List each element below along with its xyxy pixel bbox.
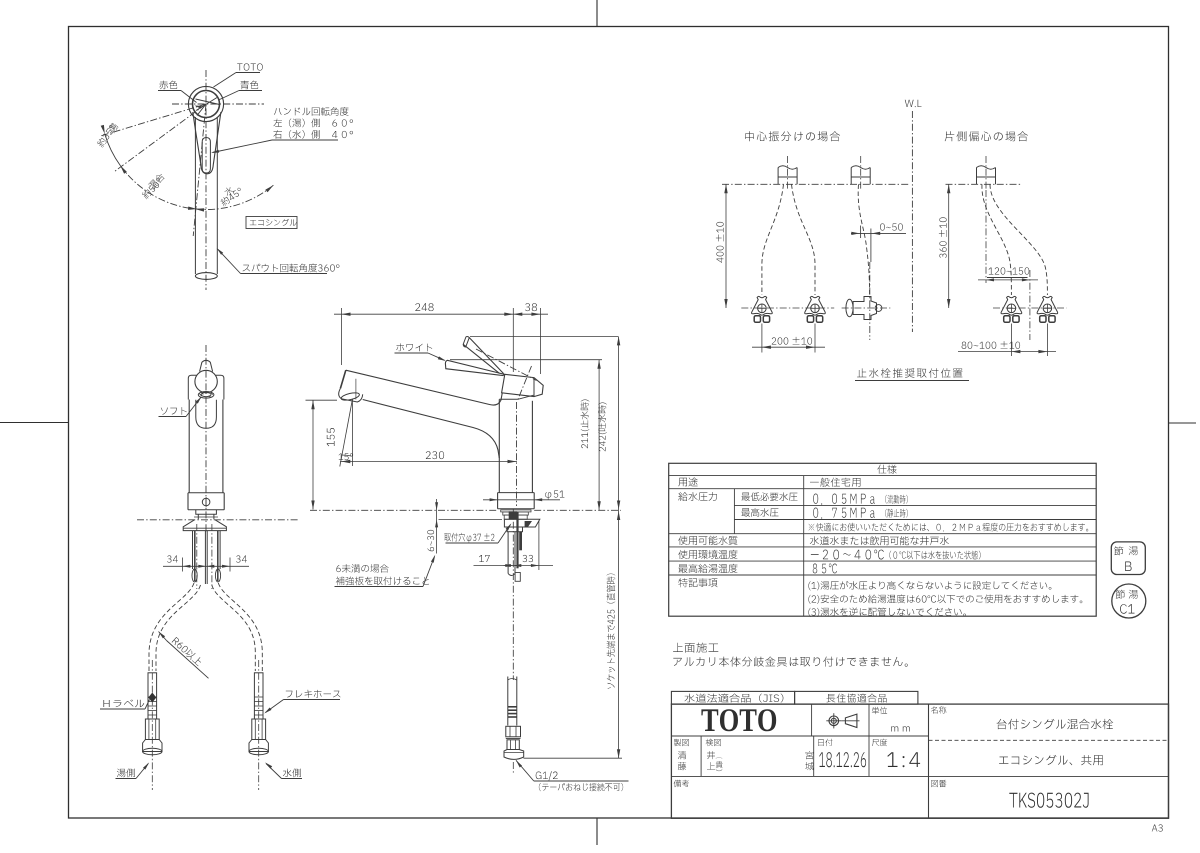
top view horizontal centerline — [172, 103, 264, 105]
counter line right diagram — [946, 183, 1023, 185]
base flange — [183, 520, 226, 531]
mounting upper — [503, 512, 529, 515]
note alkali branch fitting — [673, 657, 907, 667]
dim text 34 left — [167, 555, 178, 562]
body lower section — [188, 492, 224, 494]
label drawing number — [931, 780, 946, 787]
counter line left diagram — [722, 183, 909, 185]
frame tick top — [596, 0, 598, 27]
top view vertical centerline — [205, 70, 207, 290]
title center-split case — [745, 131, 840, 141]
label R60 min — [159, 632, 166, 639]
drawing number — [1009, 793, 1088, 808]
label red — [159, 81, 177, 90]
aerator — [339, 388, 363, 402]
hose curve eccentric left — [982, 184, 1011, 295]
arc arrowheads — [265, 185, 273, 192]
label TOTO — [237, 63, 263, 70]
extension line lever-up tip — [470, 335, 618, 337]
handle inner circle — [193, 91, 220, 118]
dim 38 extension right — [539, 308, 541, 374]
radial line hot limit — [101, 104, 207, 136]
label checker — [706, 739, 721, 746]
radial line hot end — [115, 104, 207, 172]
spec table column divider main — [803, 476, 805, 617]
caption recommended valve position — [857, 368, 962, 378]
dim text 38 — [525, 303, 537, 311]
dim 248 extension left — [341, 308, 343, 365]
certification box JIS — [671, 691, 794, 704]
socket centerline below — [512, 762, 514, 774]
soft ring ellipse — [198, 392, 214, 399]
projection symbol circle — [829, 716, 839, 726]
spout tube right edge — [216, 117, 218, 274]
stop valve symbol — [752, 296, 773, 315]
row special notes — [679, 578, 718, 587]
label W.L — [905, 100, 922, 107]
label cold side — [283, 769, 301, 778]
label mounting hole — [444, 533, 494, 543]
stop valve symbol — [805, 296, 826, 315]
dim 360+-10 — [948, 184, 950, 308]
counter line side view — [310, 509, 498, 511]
row pressure note — [809, 523, 1089, 532]
dim 34-34 extension lines — [181, 558, 183, 572]
dim 0-50 — [880, 223, 903, 230]
spec table column divider pressure — [733, 489, 735, 534]
hose connector centerline — [151, 660, 153, 790]
row max pressure — [741, 508, 778, 517]
row max hot water temperature — [678, 564, 737, 573]
eco mark B — [1111, 542, 1145, 575]
faucet stub above counter — [976, 168, 978, 185]
label flex hose — [286, 690, 341, 698]
spout top edge — [346, 370, 503, 405]
dim text 230 — [426, 451, 444, 459]
title block outer — [671, 704, 1168, 818]
dim line 248-38 — [334, 313, 548, 315]
dim text 248 — [415, 303, 433, 311]
label hot side — [117, 769, 135, 778]
spout end face — [340, 370, 345, 388]
hose dashed curve right inner — [212, 585, 256, 671]
label unit — [872, 707, 887, 714]
socket nut — [506, 726, 521, 737]
hose dashed curve left outer — [149, 583, 194, 671]
handle lower U outline — [196, 400, 217, 429]
shank tube centerlines — [196, 524, 198, 589]
handle cross marks — [196, 98, 220, 116]
note reinforcement plate — [336, 564, 388, 573]
clamp bolt — [516, 512, 518, 569]
dim text socket 425 — [607, 574, 616, 689]
body cylinder — [188, 400, 190, 493]
dim 200+-10 — [761, 324, 763, 353]
cartridge housing — [502, 374, 544, 396]
dim 120-150 — [989, 267, 1030, 274]
hose connector body — [254, 673, 263, 719]
handle body outline — [193, 112, 221, 174]
handle rotation arc (mix-water) — [120, 165, 273, 209]
handle rotation arc (hot) — [105, 134, 120, 165]
frame tick left — [0, 422, 69, 424]
15 degree vertex lines — [351, 400, 353, 467]
product name — [997, 719, 1113, 730]
hose connector nut — [145, 719, 159, 740]
body top edge — [499, 398, 518, 400]
shank tubes — [192, 531, 194, 569]
note top installation — [673, 643, 718, 653]
label drafter — [674, 739, 689, 746]
label H-label — [103, 700, 144, 708]
label hot angle — [108, 122, 119, 133]
spout tube left edge — [194, 117, 196, 274]
row water quality — [678, 536, 737, 545]
counter underside line — [439, 518, 503, 520]
mounting packing — [501, 510, 531, 512]
label date — [818, 739, 832, 746]
label white — [396, 343, 432, 351]
handle grip slot — [202, 138, 210, 174]
stop valve symbol — [1037, 296, 1058, 315]
label scale — [872, 739, 887, 746]
hose curve to left valve — [762, 184, 784, 295]
spec table outer border — [669, 463, 1096, 616]
socket tip extension — [524, 757, 623, 759]
valve centerline horizontal right diagram — [993, 307, 1067, 309]
cartridge axis dash-dot — [518, 366, 532, 401]
lever tip knob — [200, 360, 213, 371]
dim text 34 right — [236, 555, 247, 562]
water line W.L — [911, 111, 913, 332]
title block horizontals — [671, 735, 928, 737]
hose dashed curve right outer — [218, 583, 262, 671]
supply pipe stub — [507, 532, 509, 574]
socket lower nut — [507, 740, 519, 750]
dim 34-34 line — [163, 565, 249, 567]
lever axis dash-dot — [476, 349, 537, 381]
paper size A3 — [1152, 824, 1163, 831]
label soft — [161, 407, 187, 415]
label mix angle — [147, 172, 165, 190]
supply centerline — [512, 509, 514, 680]
hose curve side view — [858, 184, 869, 295]
hose connector flare — [249, 740, 268, 752]
pipe fitting small — [515, 573, 520, 582]
title one-side eccentric case — [945, 131, 1028, 141]
dim 155 line — [312, 400, 314, 509]
eco mark C1 — [1112, 584, 1146, 618]
projection symbol cone — [845, 714, 857, 727]
dim text 242 — [598, 403, 607, 452]
eco single box — [246, 217, 297, 229]
label G1/2 — [516, 760, 522, 767]
stop valve symbol — [1001, 296, 1022, 315]
product subname — [999, 755, 1103, 765]
label water angle — [223, 185, 234, 196]
dim text 15deg — [339, 453, 354, 460]
dim 6-30 — [436, 499, 438, 554]
label remarks — [674, 780, 689, 787]
lever ball — [195, 370, 217, 392]
spout bottom edge — [363, 400, 500, 459]
dim 230 line — [340, 461, 517, 463]
body centerline lower — [516, 402, 518, 506]
faucet stub above counter — [777, 168, 779, 185]
row ambient temperature — [678, 550, 737, 559]
hose connector flare — [143, 740, 162, 752]
radial line mix position — [193, 104, 206, 236]
mounting bracket plate — [504, 519, 539, 527]
aerator axis line — [355, 379, 357, 400]
base block — [498, 492, 535, 494]
hose connector body — [148, 673, 157, 719]
valve centerline horizontal left diagram — [741, 307, 834, 309]
certification box chouju — [795, 691, 918, 704]
dim 248-38 extension mid — [512, 308, 514, 372]
spec table row lines — [669, 475, 1096, 477]
name row dashed divider — [929, 739, 1169, 741]
stop valve side view symbol — [846, 299, 853, 316]
row supply pressure — [678, 492, 717, 501]
mounting lower nut — [507, 527, 522, 532]
body column — [498, 399, 500, 492]
hose curve to right valve — [792, 184, 816, 295]
dim 80-100+-10 — [1010, 324, 1012, 357]
hose connector nut — [252, 719, 266, 740]
lever up position bar — [463, 337, 469, 347]
frame tick right — [1169, 422, 1197, 424]
dim 400+-10 — [725, 184, 727, 308]
socket flare — [504, 750, 524, 760]
counter line front view — [137, 519, 298, 521]
handle outer circle — [188, 86, 223, 121]
body cap — [188, 375, 196, 399]
extension line lever-down tip — [450, 359, 602, 361]
hose dashed curve left inner — [156, 585, 201, 671]
hose end hooks — [192, 569, 197, 582]
label name — [931, 706, 946, 713]
dim 211 line — [598, 360, 600, 511]
label handle rotation angle — [274, 107, 349, 116]
dim phi51 — [483, 499, 560, 501]
dim text 211 — [581, 400, 590, 449]
hose connector centerline — [258, 660, 260, 790]
label blue — [241, 81, 259, 90]
mount nut upper — [196, 510, 217, 515]
label spout rotation angle — [243, 264, 340, 273]
lever down position bar — [445, 360, 504, 375]
dim text 155 — [327, 428, 335, 446]
TOTO logo — [701, 709, 776, 731]
title block verticals — [928, 704, 930, 818]
spout tube end ellipse — [195, 273, 217, 280]
supply hose lower — [507, 677, 509, 726]
hose curve eccentric right — [990, 184, 1047, 295]
dim 155 extension — [306, 399, 338, 401]
faucet stub above counter — [850, 168, 852, 185]
table header — [877, 465, 896, 474]
H label diamond — [148, 693, 156, 703]
frame tick bottom — [596, 818, 598, 845]
valve side view centerline — [869, 262, 871, 340]
front view centerline — [205, 345, 207, 533]
dim 242-425 line — [618, 336, 620, 758]
dim 17-33 — [474, 565, 554, 567]
row usage — [678, 477, 697, 486]
set screw circle — [202, 498, 210, 506]
